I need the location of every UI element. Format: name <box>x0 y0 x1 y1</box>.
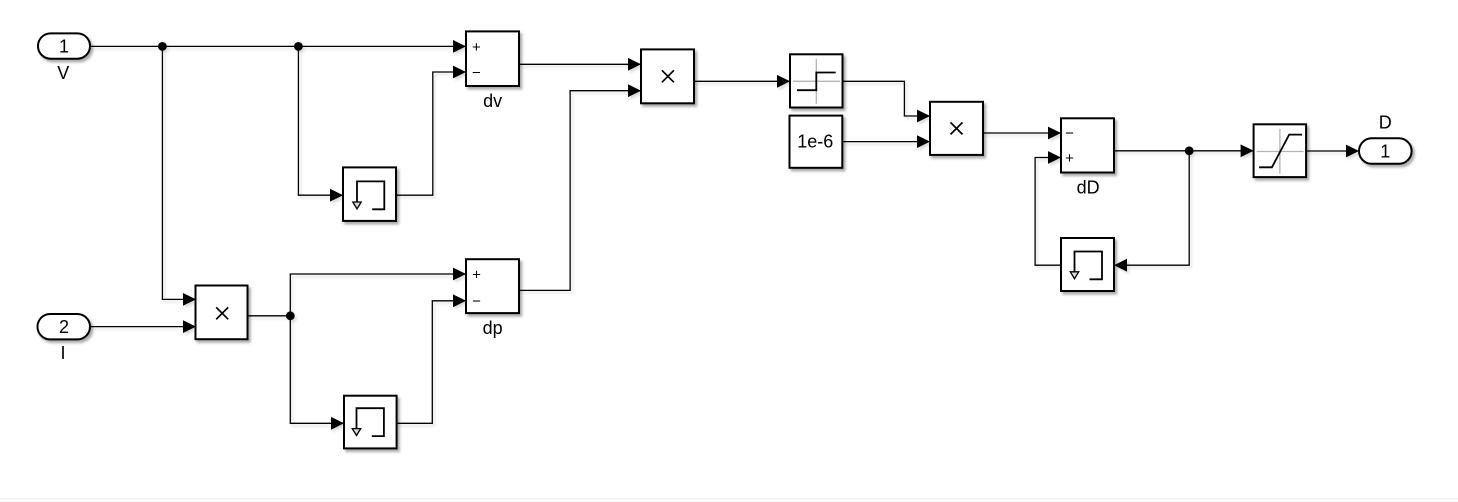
svg-text:−: − <box>472 293 481 310</box>
svg-text:2: 2 <box>59 317 69 337</box>
svg-text:dv: dv <box>483 91 502 111</box>
svg-text:V: V <box>57 63 69 83</box>
svg-text:1e-6: 1e-6 <box>797 131 833 151</box>
svg-text:1: 1 <box>59 37 69 57</box>
svg-text:D: D <box>1379 112 1392 132</box>
svg-text:+: + <box>1065 150 1074 167</box>
svg-text:I: I <box>60 343 65 363</box>
svg-text:+: + <box>472 39 481 56</box>
svg-text:−: − <box>1065 125 1074 142</box>
svg-text:−: − <box>472 65 481 82</box>
svg-text:+: + <box>472 267 481 284</box>
svg-text:dp: dp <box>483 318 503 338</box>
svg-text:dD: dD <box>1077 178 1100 198</box>
svg-text:1: 1 <box>1380 142 1390 162</box>
